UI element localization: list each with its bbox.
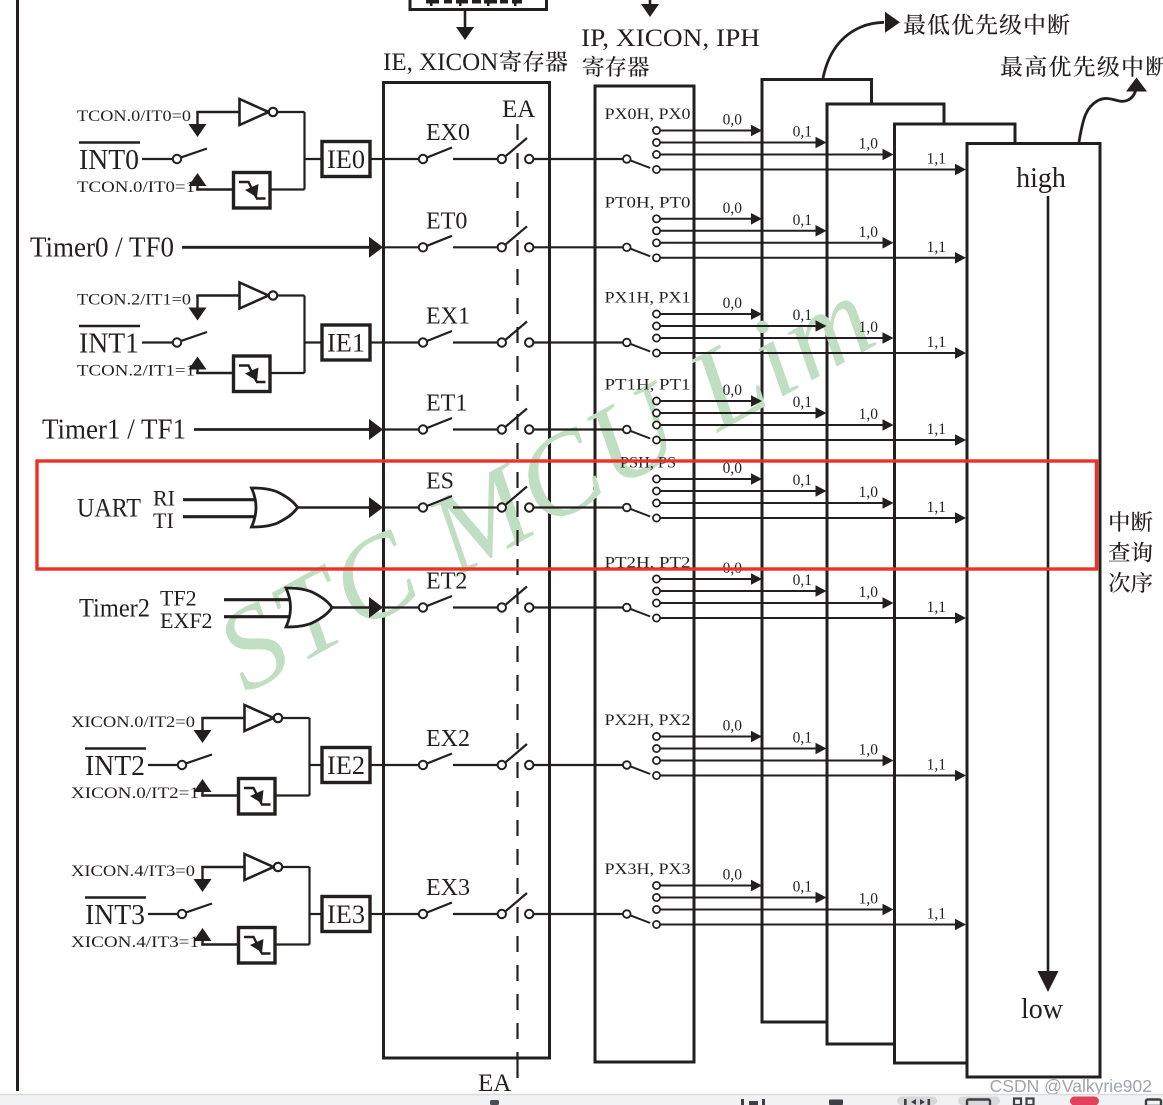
wire IE2 to IE block xyxy=(370,764,385,766)
svg-text:high: high xyxy=(1016,163,1066,194)
up arrow from edge path xyxy=(194,779,212,792)
svg-text:EX3: EX3 xyxy=(426,875,470,901)
svg-text:0,1: 0,1 xyxy=(793,307,812,324)
inverter buffer INT3 xyxy=(245,854,274,880)
level/edge select switch INT3 xyxy=(178,910,186,918)
svg-text:PX0H, PX0: PX0H, PX0 xyxy=(605,106,691,123)
wire PX3H, PX3 -> 0,1 xyxy=(653,894,660,901)
toolbar icon fragment xyxy=(829,1100,843,1105)
svg-text:low: low xyxy=(1021,994,1064,1025)
svg-text:ET0: ET0 xyxy=(426,208,467,234)
svg-text:1,1: 1,1 xyxy=(927,151,946,168)
svg-text:PT0H, PT0: PT0H, PT0 xyxy=(605,194,691,211)
wire PSH, PS -> 0,1 xyxy=(653,487,660,494)
EA master enable dashed line xyxy=(516,124,518,1058)
wire PT0H, PT0 -> 1,0 xyxy=(653,239,660,246)
svg-text:TF2: TF2 xyxy=(160,586,197,611)
caption highest priority interrupt xyxy=(1001,56,1022,77)
wire INT2 to level/edge switch xyxy=(148,764,178,766)
wire PT2H, PT2 -> 0,0 xyxy=(653,575,660,582)
svg-text:EXF2: EXF2 xyxy=(160,608,213,633)
svg-text:1,0: 1,0 xyxy=(859,891,879,908)
svg-text:1,1: 1,1 xyxy=(927,757,946,774)
svg-text:EX1: EX1 xyxy=(426,304,470,330)
wire PT2H, PT2 -> 1,1 xyxy=(653,614,660,621)
curved arrow to highest priority caption xyxy=(1079,90,1136,142)
IP, XICON, IPH priority register block xyxy=(595,86,694,1062)
wire inverter to join xyxy=(277,294,304,296)
wire edge detector to join xyxy=(275,794,310,796)
svg-text:IP, XICON, IPH: IP, XICON, IPH xyxy=(581,25,760,52)
IE, XICON enable register block xyxy=(384,83,550,1059)
or-gate Timer2 xyxy=(286,588,332,627)
EA series switch on row EX0 xyxy=(498,155,506,163)
svg-text:IE2: IE2 xyxy=(327,751,365,780)
toolbar icon fragment right xyxy=(1146,1100,1161,1105)
wire join to IE0 flag box xyxy=(304,158,323,160)
svg-text:1,1: 1,1 xyxy=(927,499,946,516)
falling edge detector INT3 xyxy=(239,928,276,964)
top cut-off register box xyxy=(410,0,547,10)
svg-text:0,1: 0,1 xyxy=(793,394,812,411)
svg-text:ET1: ET1 xyxy=(426,391,467,417)
wire PX0H, PX0 -> 1,0 xyxy=(653,151,660,158)
arrow into IP register label xyxy=(641,4,659,17)
wire INT1 to level/edge switch xyxy=(142,341,173,343)
svg-text:EA: EA xyxy=(502,96,535,123)
svg-text:0,0: 0,0 xyxy=(723,112,743,129)
wire inverter to join xyxy=(282,717,309,719)
wire INT0 to level/edge switch xyxy=(142,158,173,160)
EA series switch on row EX2 xyxy=(498,761,506,769)
wire to inverter xyxy=(196,294,239,296)
svg-text:PT1H, PT1: PT1H, PT1 xyxy=(605,377,691,394)
falling edge detector INT0 xyxy=(234,173,271,209)
EA series switch on row ET1 xyxy=(498,425,506,433)
wire PT2H, PT2 -> 0,1 xyxy=(653,587,660,594)
svg-text:TCON.2/IT1=0: TCON.2/IT1=0 xyxy=(77,292,191,309)
wire inverter to join xyxy=(282,866,309,868)
toolbar icon dot xyxy=(490,1100,499,1105)
priority cascade box level 0,1 xyxy=(827,104,944,1044)
toolbar page indicator icon xyxy=(741,1099,744,1105)
wire PT1H, PT1 -> 0,0 xyxy=(653,397,660,404)
wire to inverter xyxy=(201,717,244,719)
wire join to IE2 flag box xyxy=(309,764,323,766)
svg-text:PX1H, PX1: PX1H, PX1 xyxy=(605,290,691,307)
wire to edge detector xyxy=(196,372,233,374)
wire to inverter xyxy=(201,866,244,868)
svg-text:TI: TI xyxy=(153,508,174,533)
svg-text:PSH, PS: PSH, PS xyxy=(620,455,676,472)
wire PX2H, PX2 -> 1,1 xyxy=(653,772,660,779)
svg-text:RI: RI xyxy=(153,486,175,511)
wire join to IE3 flag box xyxy=(309,913,323,915)
priority cascade box level 0,0 xyxy=(762,80,872,1023)
wire to edge detector xyxy=(201,794,238,796)
wire PX3H, PX3 -> 0,0 xyxy=(653,882,660,889)
join vertical wire xyxy=(303,296,305,374)
up arrow from edge path xyxy=(189,173,207,186)
wire Timer1 / TF1 to IE block with arrow xyxy=(194,428,370,431)
wire PT0H, PT0 -> 0,1 xyxy=(653,227,660,234)
wire IE1 to IE block xyxy=(370,341,385,343)
svg-text:Timer0 / TF0: Timer0 / TF0 xyxy=(30,231,174,263)
svg-text:1,1: 1,1 xyxy=(927,334,946,351)
svg-text:1,0: 1,0 xyxy=(859,742,879,759)
svg-text:1,0: 1,0 xyxy=(859,224,879,241)
EA series switch on row ET0 xyxy=(498,243,506,251)
wire PT0H, PT0 -> 1,1 xyxy=(653,254,660,261)
pdf viewer toolbar sliver xyxy=(0,1095,1163,1105)
svg-text:XICON.0/IT2=0: XICON.0/IT2=0 xyxy=(71,714,195,731)
wire PSH, PS -> 0,0 xyxy=(653,475,660,482)
svg-text:Timer1 / TF1: Timer1 / TF1 xyxy=(42,414,186,446)
wires RI/TI into OR gate xyxy=(183,498,258,501)
svg-text:EX2: EX2 xyxy=(426,726,470,752)
curved arrow to lowest priority caption xyxy=(823,22,884,78)
down arrow from level path xyxy=(196,296,198,308)
svg-text:1,1: 1,1 xyxy=(927,239,946,256)
wire PX3H, PX3 -> 1,0 xyxy=(653,906,660,913)
wire PX0H, PX0 -> 1,1 xyxy=(653,166,660,173)
up arrow from edge path xyxy=(194,928,212,941)
EA series switch on row EX3 xyxy=(498,910,506,918)
interrupt flag box IE0 xyxy=(322,142,370,177)
page left border line xyxy=(16,0,19,1091)
svg-text:PX2H, PX2: PX2H, PX2 xyxy=(605,712,691,729)
wire edge detector to join xyxy=(270,372,305,374)
svg-text:EA: EA xyxy=(478,1070,511,1097)
svg-text:0,1: 0,1 xyxy=(793,879,812,896)
wire PSH, PS -> 1,1 xyxy=(653,514,660,521)
level/edge select switch INT2 xyxy=(178,761,186,769)
wire PX0H, PX0 -> 0,1 xyxy=(653,139,660,146)
toolbar frame button xyxy=(958,1097,1000,1105)
wire PX0H, PX0 -> 0,0 xyxy=(653,127,660,134)
svg-text:0,0: 0,0 xyxy=(723,382,743,399)
wire IE0 to IE block xyxy=(370,158,385,160)
svg-text:PX3H, PX3: PX3H, PX3 xyxy=(605,861,691,878)
svg-text:IE, XICON: IE, XICON xyxy=(383,49,498,76)
svg-text:1,0: 1,0 xyxy=(859,584,879,601)
wire PX3H, PX3 -> 1,1 xyxy=(653,921,660,928)
svg-text:1,1: 1,1 xyxy=(927,906,946,923)
wire Timer0 / TF0 to IE block with arrow xyxy=(182,246,370,249)
join vertical wire xyxy=(308,718,310,796)
svg-text:0,0: 0,0 xyxy=(723,295,743,312)
wire join to IE1 flag box xyxy=(304,341,323,343)
wire PX1H, PX1 -> 1,1 xyxy=(653,349,660,356)
svg-text:UART: UART xyxy=(77,494,141,523)
wire PX1H, PX1 -> 1,0 xyxy=(653,334,660,341)
or-gate UART xyxy=(252,488,298,527)
svg-text:1,1: 1,1 xyxy=(927,421,946,438)
svg-text:INT2: INT2 xyxy=(85,751,145,782)
wire to edge detector xyxy=(196,188,233,190)
caption interrupt polling order, 3 lines xyxy=(1110,511,1129,532)
level/edge select switch INT0 xyxy=(173,155,181,163)
interrupt flag box IE1 xyxy=(322,325,370,360)
wires TF2/EXF2 into OR gate xyxy=(224,598,292,601)
wire edge detector to join xyxy=(275,943,310,945)
svg-text:IE0: IE0 xyxy=(327,145,365,174)
svg-text:0,1: 0,1 xyxy=(793,212,812,229)
wire PT1H, PT1 -> 0,1 xyxy=(653,409,660,416)
svg-text:ES: ES xyxy=(426,469,454,495)
priority cascade box level 1,1 / interrupt polling box xyxy=(967,144,1100,1078)
svg-text:0,0: 0,0 xyxy=(723,718,743,735)
wire PX1H, PX1 -> 0,1 xyxy=(653,322,660,329)
down arrow from level path xyxy=(201,718,203,730)
toolbar pager button xyxy=(897,1097,937,1105)
down arrow from level path xyxy=(196,112,198,124)
svg-text:1,0: 1,0 xyxy=(859,136,879,153)
wire edge detector to join xyxy=(270,188,305,190)
wire PX2H, PX2 -> 0,0 xyxy=(653,733,660,740)
svg-text:INT0: INT0 xyxy=(79,145,139,176)
down arrow from level path xyxy=(201,867,203,879)
wire PT0H, PT0 -> 0,0 xyxy=(653,215,660,222)
toolbar red button xyxy=(1070,1097,1099,1105)
wire IE3 to IE block xyxy=(370,913,385,915)
svg-text:XICON.0/IT2=1: XICON.0/IT2=1 xyxy=(71,785,199,802)
wire PX2H, PX2 -> 1,0 xyxy=(653,757,660,764)
wire inverter to join xyxy=(277,111,304,113)
svg-text:0,1: 0,1 xyxy=(793,124,812,141)
svg-text:Timer2: Timer2 xyxy=(79,594,150,623)
svg-text:TCON.0/IT0=0: TCON.0/IT0=0 xyxy=(77,108,191,125)
inverter buffer INT1 xyxy=(240,283,269,309)
svg-text:0,1: 0,1 xyxy=(793,572,812,589)
svg-text:1,0: 1,0 xyxy=(859,406,879,423)
svg-text:1,0: 1,0 xyxy=(859,484,879,501)
priority cascade box level 1,0 xyxy=(895,124,1016,1063)
arrow from top box to IE register block xyxy=(464,11,467,28)
wire PX2H, PX2 -> 0,1 xyxy=(653,745,660,752)
wire PX1H, PX1 -> 0,0 xyxy=(653,310,660,317)
wire PT1H, PT1 -> 1,0 xyxy=(653,421,660,428)
svg-text:0,0: 0,0 xyxy=(723,867,743,884)
wire INT3 to level/edge switch xyxy=(148,913,178,915)
polling order arrow high to low xyxy=(1047,196,1050,971)
wire PT1H, PT1 -> 1,1 xyxy=(653,436,660,443)
svg-text:0,1: 0,1 xyxy=(793,472,812,489)
svg-text:1,0: 1,0 xyxy=(859,319,879,336)
svg-text:1,1: 1,1 xyxy=(927,599,946,616)
wire PT2H, PT2 -> 1,0 xyxy=(653,599,660,606)
join vertical wire xyxy=(303,112,305,190)
wire or-gate Timer2 output to IE block with arrow xyxy=(332,606,370,609)
falling edge detector INT2 xyxy=(239,779,276,815)
top box cut text fragments xyxy=(426,0,439,4)
svg-text:INT1: INT1 xyxy=(79,329,139,360)
interrupt flag box IE2 xyxy=(322,748,370,783)
svg-text:TCON.2/IT1=1: TCON.2/IT1=1 xyxy=(77,363,195,380)
inverter buffer INT2 xyxy=(245,705,274,731)
EA series switch on row ET2 xyxy=(498,603,506,611)
wire to edge detector xyxy=(201,943,238,945)
svg-text:CSDN @Valkyrie902: CSDN @Valkyrie902 xyxy=(990,1076,1152,1096)
svg-text:EX0: EX0 xyxy=(426,120,470,146)
EA series switch on row EX1 xyxy=(498,338,506,346)
toolbar grid icon xyxy=(1014,1099,1021,1105)
wire to inverter xyxy=(196,111,239,113)
interrupt flag box IE3 xyxy=(322,897,370,932)
caption lowest priority interrupt xyxy=(904,14,925,35)
red highlight rectangle on UART row xyxy=(37,461,1097,569)
join vertical wire xyxy=(308,867,310,945)
inverter buffer INT0 xyxy=(240,99,269,125)
wire or-gate UART output to IE block with arrow xyxy=(298,506,371,509)
level/edge select switch INT1 xyxy=(173,338,181,346)
svg-text:XICON.4/IT3=0: XICON.4/IT3=0 xyxy=(71,863,195,880)
up arrow from edge path xyxy=(189,357,207,370)
svg-text:ET2: ET2 xyxy=(426,569,467,595)
svg-text:INT3: INT3 xyxy=(85,900,145,931)
svg-text:TCON.0/IT0=1: TCON.0/IT0=1 xyxy=(77,179,195,196)
svg-text:0,1: 0,1 xyxy=(793,730,812,747)
svg-text:IE1: IE1 xyxy=(327,329,365,358)
svg-text:0,0: 0,0 xyxy=(723,200,743,217)
svg-text:IE3: IE3 xyxy=(327,900,365,929)
EA series switch on row ES xyxy=(498,503,506,511)
svg-text:XICON.4/IT3=1: XICON.4/IT3=1 xyxy=(71,934,199,951)
wire PSH, PS -> 1,0 xyxy=(653,499,660,506)
falling edge detector INT1 xyxy=(234,356,271,392)
